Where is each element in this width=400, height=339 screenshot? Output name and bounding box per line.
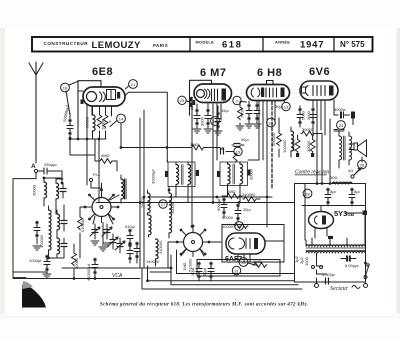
capacitor 6V6 grid right (306, 106, 316, 127)
svg-text:5000μf: 5000μf (334, 107, 346, 112)
MF transformer T2 (217, 162, 254, 203)
svg-text:30000: 30000 (249, 168, 254, 180)
capacitor 6000uf (216, 198, 227, 217)
circled terminal 23 (178, 96, 194, 104)
oscillator coil tall (39, 206, 63, 258)
svg-text:28: 28 (305, 191, 310, 196)
svg-text:Schéma général du récepteur 61: Schéma général du récepteur 618. Les tra… (100, 303, 308, 308)
capacitor 5000uf plate 6V6 (334, 100, 355, 125)
tube 6M7 (194, 84, 232, 103)
socket2 diagonal leads (181, 249, 204, 256)
circled terminal 24 (337, 121, 346, 130)
scan artifact blob (22, 285, 46, 308)
speaker (349, 140, 367, 157)
capacitor 30uf eye (202, 262, 214, 281)
svg-text:1000: 1000 (304, 256, 309, 266)
svg-text:26: 26 (360, 162, 365, 167)
svg-text:5000: 5000 (301, 110, 306, 120)
resistor 500000 (271, 127, 281, 157)
circled terminal 15 (282, 101, 290, 111)
svg-text:7000: 7000 (240, 108, 245, 118)
capacitor 8uF a (325, 188, 337, 206)
svg-text:100000: 100000 (291, 138, 296, 152)
bus y202 (96, 202, 295, 204)
circled terminal 31 (232, 266, 240, 274)
svg-text:4Ω: 4Ω (348, 168, 353, 173)
nested frame 1 (177, 250, 295, 274)
capacitor 510uf osc (125, 224, 135, 248)
svg-text:6 M7: 6 M7 (200, 67, 226, 79)
circled terminal 17 (159, 200, 167, 208)
svg-text:23: 23 (180, 98, 185, 103)
svg-text:300000: 300000 (39, 234, 44, 248)
resistor 100000 screen (291, 135, 301, 157)
wire 5Y3 pins (315, 227, 327, 238)
circled terminal 19 (226, 147, 242, 155)
grid resistor 6M7 dark (189, 97, 195, 107)
wire trimmer grounds (91, 241, 111, 247)
svg-text:410000: 410000 (158, 240, 163, 254)
resistor 4M ohm PU (95, 153, 117, 163)
resistor 140000 (242, 192, 260, 201)
nested frame 2 (148, 266, 295, 281)
band coil L3 (57, 210, 60, 235)
title block frame (32, 37, 373, 52)
wire 6AF7 pins (238, 241, 284, 262)
svg-text:6000μf: 6000μf (216, 198, 221, 211)
wire speaker down (361, 157, 363, 162)
wire L2 to L3 (56, 205, 64, 215)
svg-text:6E8: 6E8 (92, 66, 113, 78)
wire plate 6E8 coupling (125, 92, 167, 162)
screen resistor 6E8 (103, 106, 108, 139)
tube 6V6 (300, 81, 338, 100)
svg-text:30000μf: 30000μf (151, 169, 156, 184)
svg-text:250μμF: 250μμF (44, 162, 57, 167)
svg-text:30000: 30000 (306, 140, 311, 152)
svg-text:33: 33 (241, 260, 246, 265)
svg-text:1947: 1947 (300, 40, 324, 51)
grid cap bridge 6E8 (78, 81, 101, 139)
svg-text:31: 31 (234, 268, 239, 273)
svg-text:500000: 500000 (271, 132, 276, 146)
svg-text:30: 30 (237, 224, 242, 229)
socket1 diagonal leads (93, 195, 119, 224)
nested frame 3 (171, 255, 298, 285)
trimmer capacitor osc A (90, 224, 100, 239)
circled terminal 16 (61, 83, 70, 92)
resistor 30000 bottom left (72, 244, 79, 278)
svg-text:4MΩ: 4MΩ (101, 153, 110, 158)
frame around 6AF7 (222, 225, 284, 263)
svg-text:LEMOUZY: LEMOUZY (92, 40, 142, 51)
rectifier 5Y3GB (309, 212, 334, 229)
capacitor 1000uf (29, 255, 51, 278)
capacitor 15uf 6M7 (214, 106, 229, 135)
svg-text:618: 618 (222, 40, 242, 51)
svg-text:140000: 140000 (146, 259, 160, 264)
trimmer capacitor osc B (102, 224, 112, 239)
wire 6H8 to T2 (248, 159, 259, 161)
svg-text:15μf: 15μf (221, 108, 229, 113)
tube socket S2 (176, 225, 211, 257)
svg-text:140000: 140000 (242, 192, 256, 197)
resistor 510000 (78, 207, 85, 258)
capacitor 6M7 k1 (193, 106, 201, 133)
bus y197 (150, 196, 272, 198)
svg-text:24: 24 (339, 123, 344, 128)
ground bus 6E8 (70, 138, 106, 140)
svg-text:PARIS: PARIS (153, 43, 168, 48)
wire B+ inner line (302, 206, 366, 212)
mains terminal left (315, 278, 319, 288)
circled terminal 2 (233, 96, 247, 104)
bus y268 (62, 267, 170, 269)
circled terminal 14b (267, 118, 276, 127)
svg-text:50μf: 50μf (241, 137, 249, 142)
svg-text:10μf: 10μf (190, 267, 195, 276)
svg-text:100000: 100000 (282, 139, 287, 153)
wire res4M drop (95, 155, 117, 171)
capacitor input trim (60, 183, 66, 198)
grid cap bridge 6M7 (190, 80, 212, 115)
grid coil 6E8 (85, 106, 96, 139)
circled terminal 14a (110, 114, 125, 126)
wire antenna to input coils (54, 171, 62, 183)
capacitor 410000uf (86, 258, 98, 281)
oscillator coupling coil (121, 175, 126, 203)
wire 26 to box (354, 168, 362, 176)
power supply box (295, 184, 366, 283)
capacitor padder 2 (61, 238, 67, 254)
capacitor 30uf 6H8 (275, 104, 283, 109)
svg-text:14: 14 (269, 120, 274, 125)
svg-text:30Ω: 30Ω (330, 175, 337, 180)
svg-text:Secteur: Secteur (330, 286, 349, 292)
svg-text:1000μf: 1000μf (29, 258, 42, 263)
circled terminal 28 (303, 189, 312, 198)
PU terminal (89, 172, 100, 188)
capacitor 50uf det (232, 137, 249, 147)
svg-text:510μf: 510μf (125, 224, 135, 229)
oscillator coil C (156, 239, 164, 266)
nested frame 4 (142, 268, 302, 289)
svg-text:3000: 3000 (200, 116, 205, 126)
svg-text:6V6: 6V6 (309, 66, 330, 78)
AVC capacitor (33, 221, 41, 250)
resistor 1M det (190, 142, 205, 150)
feedback tap arrow (348, 168, 361, 178)
MF transformer T1 (151, 160, 200, 203)
capacitor detector (221, 148, 224, 155)
capacitor osc pair b (134, 242, 140, 263)
mains switch (364, 264, 369, 279)
filter choke horizontal (330, 175, 352, 184)
circled terminal 21 (125, 80, 137, 89)
resistor 30000 screen2 (306, 135, 315, 157)
wire socket2 left drop (168, 242, 179, 268)
input coil L2 (56, 179, 59, 205)
wire input top tie (56, 178, 63, 180)
svg-text:14: 14 (119, 116, 124, 121)
capacitor 6H8 k2 (253, 101, 261, 128)
input coil L1 (32, 178, 63, 206)
wire 6M7 pins (192, 104, 221, 202)
svg-text:6 H8: 6 H8 (257, 67, 282, 79)
long bus wires bottom (13, 278, 140, 280)
wire feedback vertical (321, 133, 323, 184)
bus vertical x140 (140, 110, 144, 268)
wire res500000 top (278, 118, 280, 127)
capacitor 8uF b (349, 188, 361, 206)
resistor 1M eye (253, 259, 267, 267)
wire under6E8 verticals (87, 121, 110, 203)
wire 6H8 pins (259, 101, 275, 227)
circled terminal 18 (211, 117, 220, 126)
output transformer (334, 130, 352, 169)
circled terminal 30 (235, 222, 244, 231)
svg-text:ANNÉE: ANNÉE (275, 40, 290, 45)
resistor 30000 feedback (301, 127, 322, 136)
svg-text:30μf: 30μf (202, 267, 207, 276)
svg-text:19: 19 (236, 149, 241, 154)
wire pins 6E8 down (87, 105, 112, 139)
capacitor 6M7 k2 (200, 106, 213, 133)
capacitor 10uf eye (190, 262, 202, 281)
antenna (29, 62, 43, 163)
circled terminal 33 (239, 258, 258, 267)
svg-text:3000: 3000 (306, 110, 311, 120)
capacitor 140000 (146, 259, 160, 264)
wire transformer primary feed (304, 184, 306, 241)
svg-text:CONSTRUCTEUR: CONSTRUCTEUR (44, 41, 89, 46)
svg-text:30μf: 30μf (243, 207, 251, 212)
HT terminal square (363, 211, 368, 216)
wire socket2 right tie (209, 241, 221, 243)
oscillator coil A (140, 190, 150, 215)
resistor 50000 (222, 215, 234, 220)
resistor 7000 6H8 (236, 101, 245, 130)
mains terminal right (364, 279, 368, 288)
page edge shading (397, 28, 400, 314)
bus y272 extension (150, 271, 171, 273)
svg-text:16: 16 (63, 85, 68, 90)
svg-text:1MΩ: 1MΩ (182, 262, 187, 271)
svg-text:N° 575: N° 575 (340, 40, 365, 49)
capacitor 6V6 grid left (297, 106, 306, 127)
wire socket to resistor (80, 206, 86, 208)
wire detector line (121, 123, 220, 148)
svg-text:18: 18 (213, 119, 218, 124)
capacitor 50000puf grid 6E8 (62, 104, 73, 139)
svg-text:21: 21 (131, 82, 136, 87)
padder coil long (169, 187, 175, 239)
oscillator coil B (149, 215, 152, 237)
cathode resistor 6E8 (97, 106, 102, 139)
resistor 100000 6M7 grid (189, 96, 194, 110)
inner box caps 6AF7 (197, 260, 280, 277)
terminal A (31, 163, 44, 173)
wire 16 to grid cap (66, 81, 78, 115)
svg-text:5.00μμF: 5.00μμF (345, 263, 359, 268)
trimmer osc D (115, 238, 125, 253)
wire right column vertical (329, 119, 331, 184)
capacitor 500uuF mains (341, 256, 359, 269)
capacitor 30uf agc (235, 204, 251, 222)
wire socket top lead (91, 183, 102, 191)
tube 6AF7 (226, 233, 265, 254)
circled terminal 26 (358, 160, 367, 169)
trimmer osc C (108, 234, 118, 249)
ground socket lead (99, 223, 107, 252)
tube 6E8 (78, 87, 125, 106)
wire osc bus (62, 138, 95, 183)
svg-text:30000: 30000 (32, 184, 37, 196)
capacitor padder (61, 215, 67, 231)
wire HT square (345, 213, 365, 240)
power transformer (294, 236, 365, 266)
wire 6M7 grid long (191, 115, 193, 226)
resistor 4M bottom (222, 189, 242, 198)
resistor 10000 (222, 224, 248, 229)
svg-text:MODÈLE: MODÈLE (196, 40, 215, 45)
bus y272 (13, 271, 47, 273)
svg-text:A: A (31, 163, 36, 170)
resistor small above T2 (233, 153, 237, 162)
svg-text:8μF: 8μF (354, 189, 361, 194)
capacitor 5000uf mains (312, 253, 336, 284)
tube socket S1 (84, 189, 120, 223)
svg-text:13: 13 (284, 104, 289, 109)
resistor 100000 right (282, 127, 294, 157)
secteur squiggle (352, 286, 360, 289)
band coil L4 (57, 234, 60, 258)
svg-text:30000: 30000 (170, 202, 175, 214)
page bottom edge (0, 317, 400, 318)
svg-text:50000: 50000 (222, 215, 234, 220)
tube 6H8 (247, 85, 290, 101)
shielded grid lead dashed (271, 102, 273, 189)
capacitor osc pair a (127, 244, 133, 263)
wire A to AVC rail (13, 173, 36, 278)
wire L4 bottom tie (57, 254, 64, 258)
wire switch drop (365, 254, 367, 263)
grid cap bridge 6H8 (267, 81, 274, 85)
capacitor 6H8 k (245, 101, 253, 128)
capacitor 250uuF antenna (44, 162, 57, 174)
wire 6V6 pins (313, 100, 325, 184)
svg-text:8μF: 8μF (330, 189, 337, 194)
